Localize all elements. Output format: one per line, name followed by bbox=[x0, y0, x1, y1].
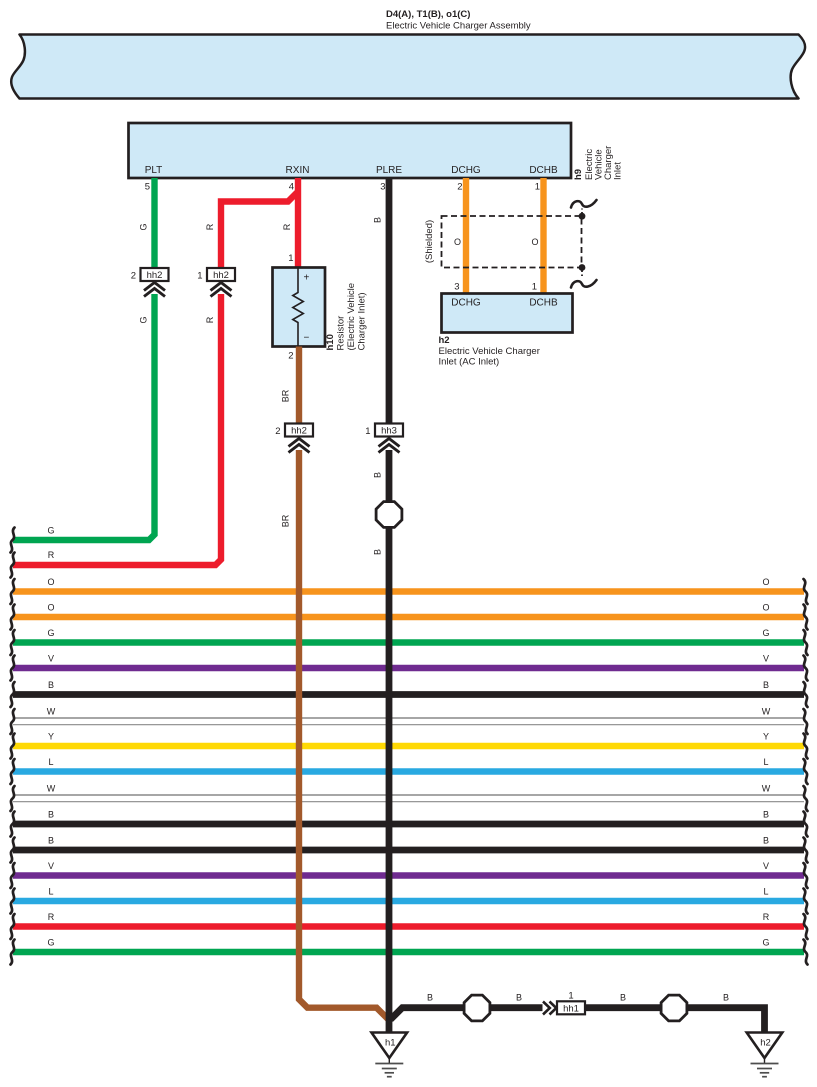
svg-text:R: R bbox=[282, 223, 292, 230]
splice octagon on black wire bbox=[376, 502, 402, 528]
svg-text:h2: h2 bbox=[439, 335, 450, 346]
ground h2 bbox=[747, 1033, 783, 1077]
wire break squiggle right row 8 bbox=[804, 759, 808, 784]
svg-text:Y: Y bbox=[763, 732, 769, 742]
wire break squiggle right row 3 bbox=[804, 630, 808, 655]
svg-text:PLRE: PLRE bbox=[376, 165, 402, 176]
wire break squiggle left row 9 bbox=[11, 786, 15, 811]
wire break squiggle right row 13 bbox=[804, 889, 808, 914]
wire break squiggle right row 5 bbox=[804, 682, 808, 707]
svg-text:4: 4 bbox=[289, 182, 294, 193]
shield drain node bottom bbox=[579, 264, 586, 271]
shield stub dashed bottom bbox=[581, 268, 583, 276]
connector h2 caption bbox=[439, 335, 540, 368]
svg-text:G: G bbox=[139, 223, 149, 230]
svg-text:hh2: hh2 bbox=[147, 270, 163, 281]
wire break squiggle left row 3 bbox=[11, 630, 15, 655]
svg-text:R: R bbox=[763, 912, 770, 922]
wire B horizontal row 5 bbox=[13, 691, 804, 698]
wire break squiggle right row 1 bbox=[804, 579, 808, 604]
connector hh2 pin 2 on brown wire bbox=[275, 424, 313, 438]
svg-text:B: B bbox=[763, 836, 769, 846]
svg-text:W: W bbox=[762, 784, 771, 794]
svg-text:Electric Vehicle Charger Assem: Electric Vehicle Charger Assembly bbox=[386, 21, 531, 32]
svg-text:R: R bbox=[205, 223, 215, 230]
splice octagon bottom left bbox=[464, 995, 490, 1021]
wire break squiggle left row 12 bbox=[11, 863, 15, 888]
wire break squiggle left row 6 bbox=[11, 709, 15, 734]
svg-text:D4(A), T1(B), o1(C): D4(A), T1(B), o1(C) bbox=[386, 9, 470, 20]
wire break squiggle right row 6 bbox=[804, 709, 808, 734]
chevron hh2 brown bbox=[289, 439, 310, 453]
wire break squiggle left row 4 bbox=[11, 656, 15, 681]
svg-text:B: B bbox=[516, 993, 522, 1003]
resistor h10 box bbox=[273, 268, 326, 347]
svg-text:V: V bbox=[763, 861, 769, 871]
svg-text:Y: Y bbox=[48, 732, 54, 742]
svg-text:1: 1 bbox=[288, 253, 293, 264]
connector h2 Electric Vehicle Charger Inlet (AC Inlet) box bbox=[442, 294, 573, 333]
svg-text:Electric Vehicle Charger: Electric Vehicle Charger bbox=[439, 346, 540, 357]
wire break squiggle right row 12 bbox=[804, 863, 808, 888]
connector hh2 pin 1 on red wire bbox=[197, 268, 235, 282]
connector h9 Electric Vehicle Charger Inlet box bbox=[129, 123, 572, 178]
svg-text:G: G bbox=[762, 938, 769, 948]
svg-text:2: 2 bbox=[288, 351, 293, 362]
connector hh1 pin 1 bbox=[557, 1001, 585, 1014]
wire O horizontal row 1 bbox=[13, 588, 804, 594]
wire break squiggle right row 10 bbox=[804, 812, 808, 837]
wire B from hh1 to ground h2 bbox=[556, 1008, 765, 1033]
wire W horizontal row 6 bbox=[13, 718, 804, 725]
wire L horizontal row 13 bbox=[13, 898, 804, 904]
wire B junction to splice run bbox=[391, 1008, 543, 1020]
svg-text:V: V bbox=[763, 654, 769, 664]
wire R branch to hh2 bbox=[221, 193, 297, 269]
wire R horizontal row 14 bbox=[13, 923, 804, 929]
svg-text:(Shielded): (Shielded) bbox=[424, 220, 435, 263]
svg-text:V: V bbox=[48, 861, 54, 871]
svg-text:2: 2 bbox=[131, 271, 136, 282]
svg-text:h2: h2 bbox=[760, 1038, 771, 1049]
shield stub dashed top bbox=[581, 209, 583, 217]
wire O horizontal row 2 bbox=[13, 614, 804, 620]
svg-text:L: L bbox=[763, 757, 768, 767]
wire break squiggle right row 7 bbox=[804, 734, 808, 759]
connector hh3 pin 1 on black wire bbox=[365, 424, 403, 438]
svg-text:(Electric Vehicle: (Electric Vehicle bbox=[346, 283, 357, 351]
wire break squiggle left row 1 bbox=[11, 579, 15, 604]
svg-text:B: B bbox=[373, 549, 383, 555]
svg-text:G: G bbox=[47, 526, 54, 536]
wire B from splice to ground h1 bbox=[386, 528, 393, 1034]
wire B horizontal row 11 bbox=[13, 847, 804, 854]
svg-text:O: O bbox=[47, 577, 54, 587]
svg-text:V: V bbox=[48, 654, 54, 664]
connector hh2 pin 2 on green wire bbox=[131, 268, 169, 282]
wire B horizontal row 10 bbox=[13, 821, 804, 828]
svg-text:DCHG: DCHG bbox=[451, 165, 481, 176]
chevron hh2 red bbox=[211, 283, 232, 297]
wire V horizontal row 4 bbox=[13, 665, 804, 671]
svg-text:B: B bbox=[48, 810, 54, 820]
wire break squiggle left row 15 bbox=[11, 940, 15, 965]
svg-text:R: R bbox=[205, 316, 215, 323]
svg-text:Charger Inlet): Charger Inlet) bbox=[357, 292, 368, 350]
svg-text:O: O bbox=[454, 237, 461, 247]
svg-text:G: G bbox=[139, 316, 149, 323]
chevron right into hh1 bbox=[543, 1002, 556, 1015]
Electric Vehicle Charger Assembly bus band bbox=[11, 35, 805, 99]
svg-text:1: 1 bbox=[532, 282, 537, 293]
wire break squiggle left row 2 bbox=[11, 605, 15, 630]
svg-text:3: 3 bbox=[380, 182, 385, 193]
wire B from h9 pin 3 to hh3 bbox=[386, 178, 393, 424]
svg-text:PLT: PLT bbox=[145, 165, 163, 176]
svg-text:B: B bbox=[48, 836, 54, 846]
wire break squiggle right row 4 bbox=[804, 656, 808, 681]
svg-text:R: R bbox=[48, 550, 55, 560]
wire break squiggle right row 15 bbox=[804, 940, 808, 965]
svg-text:DCHG: DCHG bbox=[451, 298, 481, 309]
svg-text:BR: BR bbox=[281, 389, 291, 402]
svg-text:B: B bbox=[373, 472, 383, 478]
svg-text:B: B bbox=[763, 810, 769, 820]
wire O DCHB from h9 pin 1 to h2 bbox=[540, 178, 546, 294]
wire break squiggle left row 7 bbox=[11, 734, 15, 759]
wire BR from hh2 down to junction with B bbox=[299, 450, 389, 1020]
svg-text:3: 3 bbox=[454, 282, 459, 293]
svg-text:DCHB: DCHB bbox=[529, 298, 558, 309]
wire break squiggle left row 11 bbox=[11, 838, 15, 863]
wire Y horizontal row 7 bbox=[13, 743, 804, 749]
svg-text:h10: h10 bbox=[325, 334, 336, 350]
svg-text:B: B bbox=[620, 993, 626, 1003]
svg-text:h9: h9 bbox=[573, 169, 584, 180]
svg-text:W: W bbox=[762, 707, 771, 717]
svg-text:G: G bbox=[762, 628, 769, 638]
wire break squiggle right row 9 bbox=[804, 786, 808, 811]
shield continuation squiggle bottom bbox=[571, 280, 597, 288]
wire G horizontal row 3 bbox=[13, 639, 804, 645]
svg-text:B: B bbox=[763, 680, 769, 690]
wire R from hh2 down and left to page edge bbox=[13, 294, 221, 565]
shield drain node top bbox=[579, 213, 586, 220]
svg-text:hh3: hh3 bbox=[381, 426, 397, 437]
svg-text:B: B bbox=[427, 993, 433, 1003]
wire G from hh2 down and left to page edge bbox=[13, 294, 155, 540]
splice octagon bottom right bbox=[661, 995, 687, 1021]
svg-text:O: O bbox=[762, 577, 769, 587]
chevron hh3 black bbox=[379, 439, 400, 453]
svg-text:W: W bbox=[47, 784, 56, 794]
wire R from h9 pin 4 to resistor h10 bbox=[295, 178, 301, 268]
svg-text:O: O bbox=[531, 237, 538, 247]
svg-text:Resistor: Resistor bbox=[336, 316, 347, 351]
svg-text:R: R bbox=[48, 912, 55, 922]
svg-text:L: L bbox=[48, 757, 53, 767]
svg-text:G: G bbox=[47, 628, 54, 638]
wire G horizontal row 15 bbox=[13, 949, 804, 955]
wire V horizontal row 12 bbox=[13, 872, 804, 878]
wire break squiggle right row 2 bbox=[804, 605, 808, 630]
wire B from hh3 to splice bbox=[386, 450, 393, 502]
svg-text:B: B bbox=[373, 217, 383, 223]
svg-text:Inlet (AC Inlet): Inlet (AC Inlet) bbox=[439, 357, 500, 368]
wire break squiggle R left bbox=[11, 553, 15, 578]
svg-text:hh1: hh1 bbox=[563, 1004, 579, 1015]
svg-text:L: L bbox=[48, 887, 53, 897]
wire W horizontal row 9 bbox=[13, 795, 804, 802]
svg-text:B: B bbox=[723, 993, 729, 1003]
svg-text:L: L bbox=[763, 887, 768, 897]
wire break squiggle left row 13 bbox=[11, 889, 15, 914]
resistor h10 designator vertical text bbox=[325, 283, 368, 351]
shield dashed box bbox=[442, 216, 582, 268]
wire BR from resistor h10 to hh2 bbox=[296, 347, 302, 424]
svg-text:−: − bbox=[304, 333, 310, 344]
svg-text:BR: BR bbox=[281, 514, 291, 527]
svg-text:h1: h1 bbox=[385, 1038, 396, 1049]
wire L horizontal row 8 bbox=[13, 768, 804, 774]
wire O DCHG from h9 pin 2 to h2 bbox=[463, 178, 469, 294]
svg-text:B: B bbox=[48, 680, 54, 690]
wire break squiggle right row 14 bbox=[804, 914, 808, 939]
shield continuation squiggle top bbox=[571, 200, 597, 208]
svg-text:+: + bbox=[304, 273, 310, 284]
svg-text:Inlet: Inlet bbox=[613, 162, 624, 180]
ground h1 bbox=[372, 1033, 408, 1077]
svg-text:hh2: hh2 bbox=[291, 426, 307, 437]
wire break squiggle left row 10 bbox=[11, 812, 15, 837]
wire break squiggle G left bbox=[11, 528, 15, 553]
wire break squiggle left row 8 bbox=[11, 759, 15, 784]
svg-text:W: W bbox=[47, 707, 56, 717]
svg-text:1: 1 bbox=[197, 271, 202, 282]
svg-text:hh2: hh2 bbox=[213, 270, 229, 281]
svg-text:2: 2 bbox=[275, 426, 280, 437]
wire break squiggle left row 5 bbox=[11, 682, 15, 707]
svg-text:1: 1 bbox=[365, 426, 370, 437]
wire break squiggle left row 14 bbox=[11, 914, 15, 939]
svg-text:5: 5 bbox=[145, 182, 150, 193]
svg-text:O: O bbox=[47, 603, 54, 613]
svg-text:O: O bbox=[762, 603, 769, 613]
wire G from h9 pin 5 to hh2 bbox=[151, 178, 157, 268]
svg-text:1: 1 bbox=[535, 182, 540, 193]
chevron hh2 green bbox=[144, 283, 165, 297]
svg-text:DCHB: DCHB bbox=[529, 165, 558, 176]
wire break squiggle right row 11 bbox=[804, 838, 808, 863]
svg-text:RXIN: RXIN bbox=[286, 165, 310, 176]
connector designator h9 vertical text bbox=[573, 146, 624, 180]
svg-text:G: G bbox=[47, 938, 54, 948]
svg-text:2: 2 bbox=[457, 182, 462, 193]
svg-text:1: 1 bbox=[568, 991, 573, 1002]
